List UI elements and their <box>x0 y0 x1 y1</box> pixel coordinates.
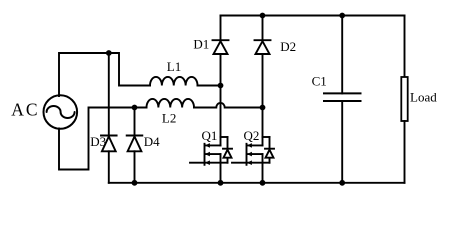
wire: top rail down to D2 cathode <box>262 16 264 41</box>
svg-text:L2: L2 <box>162 110 176 125</box>
wire: AC bottom terminal down and over to L2 <box>59 108 147 170</box>
node: D4 junction on bottom rail <box>132 180 138 186</box>
node A: L1 / D1 / Q1 junction <box>218 83 224 89</box>
wire: D1 anode down to node A <box>220 54 222 86</box>
transistor Q2 <box>232 137 274 165</box>
wire: L1 to node A <box>198 85 221 87</box>
svg-text:D1: D1 <box>193 37 209 52</box>
resistor Load <box>401 77 407 121</box>
wire: D4 cathode riser <box>134 108 136 136</box>
node: Q1 source junction on bottom rail <box>218 180 224 186</box>
wire: AC top terminal up and across to L1 <box>59 53 150 96</box>
node: C1 junction on bottom rail <box>339 180 345 186</box>
wire: node B down to Q2 drain <box>262 108 264 146</box>
diode D4 <box>127 136 143 152</box>
inductor L2 <box>147 99 195 108</box>
diode D3 <box>101 136 117 152</box>
wire: top rail down to D1 cathode <box>220 16 222 41</box>
svg-text:A: A <box>11 99 24 119</box>
svg-text:D3: D3 <box>90 134 106 149</box>
node B: L2 / D2 / Q2 junction <box>260 105 266 111</box>
svg-text:D2: D2 <box>280 39 296 54</box>
node: C1 branch on top rail <box>339 13 345 19</box>
svg-text:C: C <box>26 99 38 119</box>
AC source V1 <box>44 95 78 129</box>
wire: D3 cathode riser <box>108 53 110 136</box>
node: D4 tap on lower AC wire <box>132 105 138 111</box>
wire: top rail down to load <box>404 16 406 78</box>
wire: Q1 source down to bottom rail <box>220 154 222 183</box>
transistor Q1 <box>190 137 232 165</box>
svg-text:Load: Load <box>410 90 437 105</box>
svg-text:Q1: Q1 <box>202 128 218 143</box>
wire: D4 anode to bottom rail <box>134 151 136 183</box>
svg-text:D4: D4 <box>144 134 160 149</box>
node: Q2 source junction on bottom rail <box>260 180 266 186</box>
wire: L2 to node B with hop over D1/Q1 branch <box>194 103 263 108</box>
capacitor C1 <box>324 16 361 183</box>
inductor L1 <box>150 77 198 86</box>
svg-text:Q2: Q2 <box>244 128 260 143</box>
wire: load to bottom rail <box>404 121 406 183</box>
wire: node A down to Q1 drain <box>220 86 222 146</box>
svg-text:L1: L1 <box>167 59 181 74</box>
diode D2 <box>255 40 271 54</box>
diode D1 <box>213 40 229 54</box>
wire: Q2 source down to bottom rail <box>262 154 264 183</box>
node: D3 tap on upper AC wire <box>106 50 112 56</box>
wire: D3 anode to bottom rail <box>108 151 110 183</box>
svg-text:C1: C1 <box>312 74 327 89</box>
node: D2 branch on top rail <box>260 13 266 19</box>
wire: D2 anode down to node B <box>262 54 264 108</box>
wire: bottom rail <box>109 182 405 184</box>
wire: top rail <box>221 15 405 17</box>
